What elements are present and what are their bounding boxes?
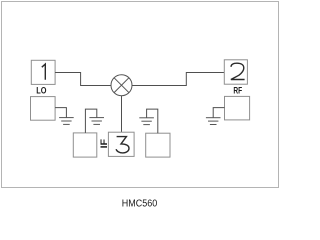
port box 3	[108, 132, 134, 156]
wire left bypass box to ground	[85, 109, 96, 133]
port box 1	[31, 60, 55, 84]
wire right bypass box to ground	[147, 109, 158, 133]
mixer	[111, 75, 132, 96]
ground	[89, 118, 104, 125]
wire mixer to RF port	[132, 73, 224, 86]
ground	[59, 118, 74, 125]
ground	[139, 118, 154, 125]
port box 2	[224, 60, 247, 84]
svg-text:RF: RF	[233, 86, 242, 97]
left bypass box	[73, 133, 97, 157]
pin number 1	[42, 64, 46, 80]
ground	[206, 118, 221, 125]
RF termination box	[225, 96, 250, 120]
svg-text:IF: IF	[99, 139, 110, 149]
wire LO port to mixer	[55, 73, 111, 86]
wire mixer to IF port	[121, 96, 123, 133]
pin number 2	[231, 63, 245, 79]
right bypass box	[146, 133, 170, 157]
wire LO termination box to ground	[55, 108, 66, 118]
pin number 3	[116, 137, 129, 153]
svg-text:HMC560: HMC560	[122, 198, 158, 209]
wire RF termination box to ground	[213, 108, 224, 118]
LO termination box	[31, 97, 56, 121]
svg-text:LO: LO	[36, 86, 46, 97]
